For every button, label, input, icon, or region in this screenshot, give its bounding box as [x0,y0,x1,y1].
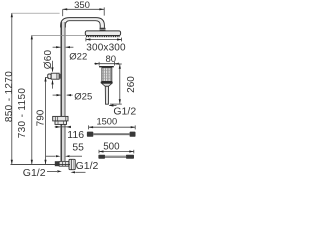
svg-text:300x300: 300x300 [86,43,126,54]
svg-text:Ø22: Ø22 [69,51,87,62]
svg-text:1500: 1500 [96,117,117,127]
svg-text:500: 500 [103,141,120,152]
svg-text:350: 350 [74,0,90,11]
svg-text:80: 80 [106,54,117,65]
svg-text:730 - 1150: 730 - 1150 [17,88,28,139]
svg-text:G1/2: G1/2 [23,167,46,179]
svg-text:790: 790 [35,109,46,126]
svg-text:260: 260 [126,76,137,93]
svg-text:G1/2: G1/2 [76,160,99,172]
svg-text:G1/2: G1/2 [113,105,136,117]
svg-text:55: 55 [72,143,84,154]
svg-text:850 - 1270: 850 - 1270 [4,71,15,122]
svg-text:116: 116 [67,129,84,141]
svg-text:Ø60: Ø60 [43,50,54,70]
svg-text:Ø25: Ø25 [74,91,92,102]
